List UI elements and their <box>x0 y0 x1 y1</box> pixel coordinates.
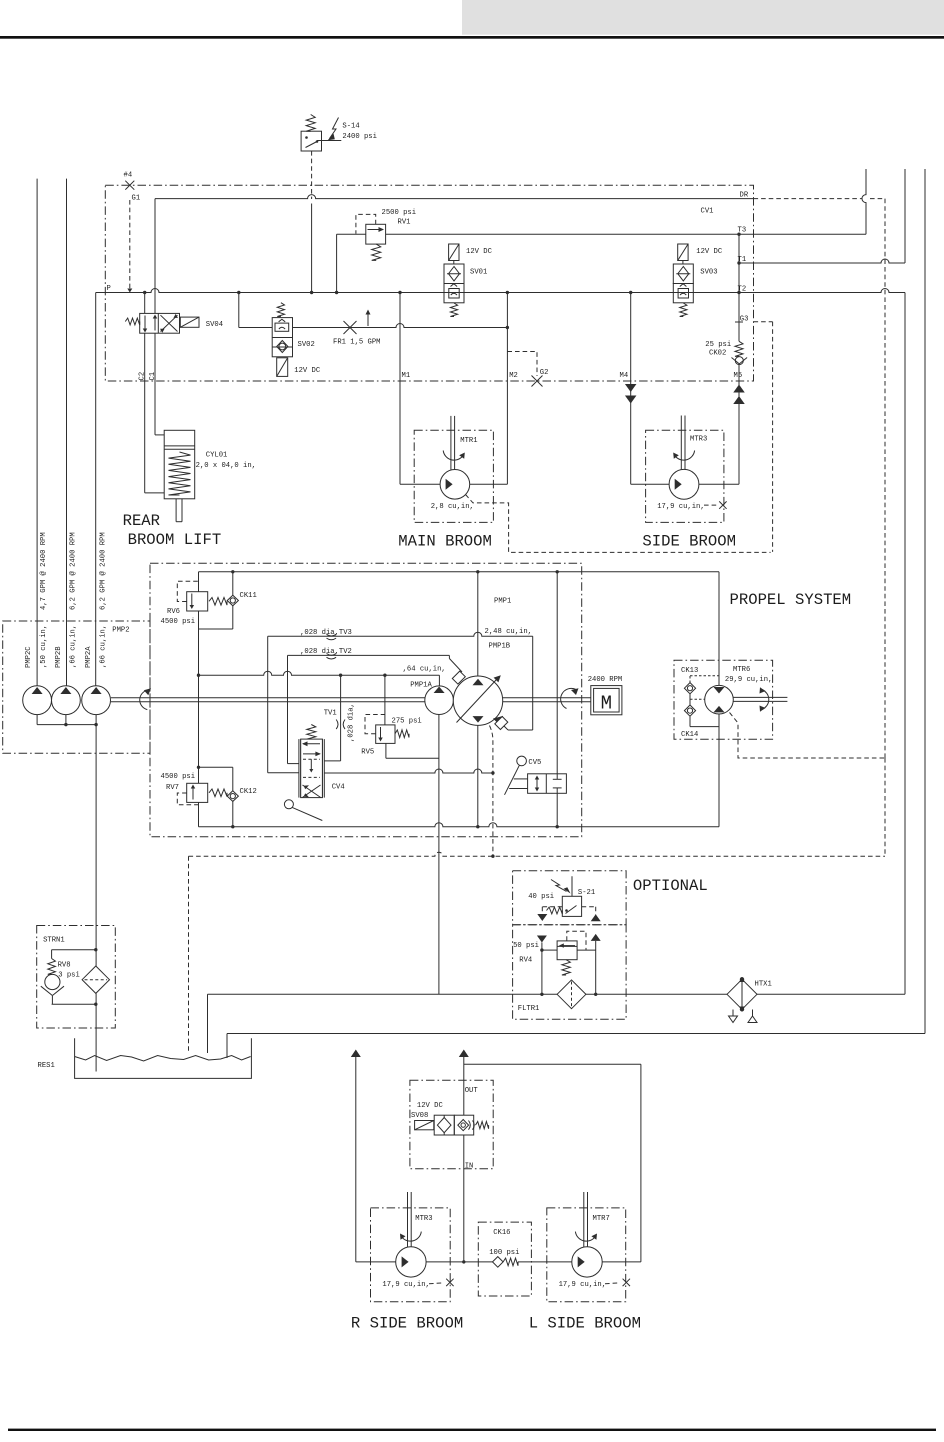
svg-text:CK02: CK02 <box>709 350 726 358</box>
svg-text:6,2 GPM @ 2400 RPM: 6,2 GPM @ 2400 RPM <box>70 532 78 610</box>
wire S-14 to P rail <box>311 151 313 199</box>
wire pump suction to tank <box>95 725 97 966</box>
wire propel return rail <box>199 823 720 827</box>
port G1 <box>125 181 134 190</box>
relief valve RV6 <box>198 572 200 592</box>
svg-text:CK12: CK12 <box>240 788 257 796</box>
svg-text:3 psi: 3 psi <box>58 971 80 979</box>
svg-text:CK11: CK11 <box>240 592 257 600</box>
wire SV02 feed <box>238 293 240 328</box>
svg-text:12V DC: 12V DC <box>417 1102 444 1110</box>
svg-text:TV1: TV1 <box>324 709 337 717</box>
svg-text:M1: M1 <box>402 372 411 380</box>
wire T2 return line <box>904 293 906 995</box>
svg-text:RES1: RES1 <box>38 1062 55 1070</box>
pump PMP1A <box>438 675 440 686</box>
relief valve RV4 <box>537 936 547 943</box>
wire PMP1A drain <box>438 715 440 995</box>
solenoid valve SV02 <box>277 303 284 317</box>
svg-text:S-21: S-21 <box>578 889 595 897</box>
wire M1 branch <box>399 293 401 485</box>
pilot wire G1 <box>129 200 131 289</box>
svg-text:12V DC: 12V DC <box>696 248 723 256</box>
svg-text:,50 cu,in,: ,50 cu,in, <box>40 625 48 668</box>
svg-text:C2: C2 <box>139 372 147 381</box>
solenoid valve SV08 <box>415 1121 434 1130</box>
svg-text:MAIN BROOM: MAIN BROOM <box>398 532 492 550</box>
motor MTR3 <box>680 416 682 470</box>
svg-text:25 psi: 25 psi <box>705 341 731 349</box>
wire MTR6 return <box>718 714 720 827</box>
svg-text:RV1: RV1 <box>398 219 411 227</box>
check valve CK14 <box>689 694 691 705</box>
svg-text:,66 cu,in,: ,66 cu,in, <box>100 625 108 668</box>
wire optional boundary dashed <box>189 852 886 856</box>
svg-text:,64 cu,in,: ,64 cu,in, <box>403 666 446 674</box>
svg-text:,66 cu,in,: ,66 cu,in, <box>70 625 78 668</box>
svg-text:G2: G2 <box>540 369 549 377</box>
svg-text:6,2 GPM @ 2400 RPM: 6,2 GPM @ 2400 RPM <box>100 532 108 610</box>
relief valve RV1 <box>366 224 386 244</box>
svg-text:,028 dia,TV3: ,028 dia,TV3 <box>300 629 352 637</box>
svg-text:OUT: OUT <box>465 1087 479 1095</box>
wire R broom supply <box>351 1050 361 1058</box>
svg-text:HTX1: HTX1 <box>755 981 772 989</box>
relief valve RV5 <box>384 675 386 725</box>
strainer STRN1 enclosure <box>37 926 116 1029</box>
wire C2 <box>144 293 146 314</box>
svg-text:2,48 cu,in,: 2,48 cu,in, <box>485 628 532 636</box>
svg-text:C1: C1 <box>149 372 157 381</box>
wire C1 <box>154 199 156 314</box>
svg-text:2,8 cu,in,: 2,8 cu,in, <box>431 503 474 511</box>
svg-text:R SIDE BROOM: R SIDE BROOM <box>351 1315 463 1333</box>
motor MTR3 R <box>407 1192 409 1247</box>
wire tank drop 994 <box>207 994 209 1053</box>
damper TV2 inlet <box>448 655 450 658</box>
wire return to tank <box>208 993 906 995</box>
wire pump suction lines <box>36 179 38 686</box>
svg-text:M: M <box>601 693 612 715</box>
port G2 <box>507 352 537 377</box>
heat exchanger HTX1 <box>727 979 757 1009</box>
wire M5 CK02 branch <box>738 234 740 341</box>
check valve CK12 <box>227 791 238 802</box>
svg-text:CK14: CK14 <box>681 731 698 739</box>
svg-text:2400 RPM: 2400 RPM <box>588 676 623 684</box>
svg-text:PMP1B: PMP1B <box>489 643 511 651</box>
svg-text:2500 psi: 2500 psi <box>382 209 417 217</box>
svg-text:RV5: RV5 <box>361 749 374 757</box>
svg-text:MTR6: MTR6 <box>733 666 750 674</box>
strainer STRN1 <box>82 966 109 993</box>
pump PMP1B <box>477 572 479 676</box>
svg-text:PMP1A: PMP1A <box>410 682 432 690</box>
svg-text:DR: DR <box>740 192 749 200</box>
propel system enclosure <box>150 563 582 837</box>
pump PMP2 group <box>3 621 150 753</box>
wire cooler return line <box>227 1033 925 1035</box>
drive shaft <box>111 697 591 699</box>
svg-text:17,9 cu,in,: 17,9 cu,in, <box>382 1281 429 1289</box>
svg-text:PMP2A: PMP2A <box>85 646 93 668</box>
svg-text:RV7: RV7 <box>166 784 179 792</box>
svg-text:SV04: SV04 <box>206 321 223 329</box>
wire T3 line <box>337 233 366 235</box>
solenoid valve SV03 <box>678 244 688 261</box>
valve CV5 <box>517 756 527 766</box>
svg-text:CV4: CV4 <box>332 784 345 792</box>
svg-text:RV6: RV6 <box>167 608 180 616</box>
svg-text:STRN1: STRN1 <box>43 937 65 945</box>
svg-text:40 psi: 40 psi <box>528 893 554 901</box>
svg-text:PMP2C: PMP2C <box>25 646 33 668</box>
wire T3 riser <box>862 169 866 234</box>
solenoid valve SV04 <box>125 318 139 325</box>
svg-text:SV08: SV08 <box>411 1112 428 1120</box>
cylinder CYL01 <box>164 430 195 499</box>
svg-text:29,9 cu,in,: 29,9 cu,in, <box>725 676 772 684</box>
motor MTR7 <box>583 1192 585 1247</box>
motor MTR3 enclosure <box>646 430 724 522</box>
svg-text:4500 psi: 4500 psi <box>161 773 196 781</box>
svg-text:IN: IN <box>465 1162 474 1170</box>
svg-text:12V DC: 12V DC <box>294 367 321 375</box>
svg-text:SV03: SV03 <box>700 269 717 277</box>
pilot wire MTR1 to side broom <box>466 495 771 553</box>
svg-text:MTR7: MTR7 <box>593 1215 610 1223</box>
orifice TV2 line <box>288 654 450 656</box>
svg-text:50 psi: 50 psi <box>513 942 539 950</box>
motor MTR6 enclosure <box>674 660 773 739</box>
svg-text:CV5: CV5 <box>528 759 541 767</box>
svg-text:BROOM LIFT: BROOM LIFT <box>128 531 222 549</box>
wire M2 branch <box>506 293 508 485</box>
motor MTR6 <box>705 685 734 714</box>
svg-text:MTR1: MTR1 <box>460 437 477 445</box>
wire pump drain <box>324 769 493 773</box>
svg-text:CK13: CK13 <box>681 667 698 675</box>
lever CV4 <box>284 800 293 809</box>
filter FLTR1 enclosure <box>513 925 627 1020</box>
svg-text:PROPEL SYSTEM: PROPEL SYSTEM <box>730 591 852 609</box>
pressure switch S-21 <box>571 876 573 896</box>
svg-text:17,9 cu,in,: 17,9 cu,in, <box>559 1281 606 1289</box>
wire SV08 riser <box>459 1050 469 1058</box>
relief valve RV7 <box>198 675 200 783</box>
svg-text:4500 psi: 4500 psi <box>161 618 196 626</box>
svg-text:SIDE BROOM: SIDE BROOM <box>642 532 736 550</box>
reservoir RES1 <box>75 1038 252 1078</box>
svg-text:4,7 GPM @ 2400 RPM: 4,7 GPM @ 2400 RPM <box>40 532 48 610</box>
solenoid valve SV01 <box>449 244 459 261</box>
check valve CK16 <box>493 1257 504 1268</box>
valve CV4 <box>307 725 316 740</box>
orifice TV3 line <box>268 632 533 636</box>
pilot wire G3 to side broom box <box>754 321 773 323</box>
manifold CV1 enclosure <box>105 185 753 381</box>
svg-text:MTR3: MTR3 <box>415 1215 432 1223</box>
svg-text:M2: M2 <box>509 372 518 380</box>
svg-text:100 psi: 100 psi <box>489 1249 519 1257</box>
svg-text:M4: M4 <box>620 372 629 380</box>
pressure switch S-14 <box>306 115 315 132</box>
relief valve RV8 <box>52 949 96 951</box>
wire DR rail <box>155 195 754 199</box>
svg-text:M5: M5 <box>734 372 743 380</box>
check valve CK02 <box>735 341 743 356</box>
check valve CK16 enclosure <box>478 1222 531 1296</box>
svg-text:CV1: CV1 <box>701 208 714 216</box>
solenoid valve SV08 enclosure <box>410 1080 493 1169</box>
svg-text:P: P <box>107 285 111 293</box>
svg-text:RV8: RV8 <box>58 962 71 970</box>
wire CV5 riser <box>556 572 558 774</box>
check valve CK13 <box>689 676 691 683</box>
damper TV3 inlet <box>493 716 503 726</box>
svg-text:PMP2B: PMP2B <box>55 646 63 668</box>
svg-text:CYL01: CYL01 <box>206 451 228 459</box>
svg-text:FR1 1,5 GPM: FR1 1,5 GPM <box>333 339 380 347</box>
motor MTR1 enclosure <box>414 430 493 522</box>
pressure switch S-21 enclosure <box>513 871 627 925</box>
svg-text:G1: G1 <box>132 195 141 203</box>
svg-text:PMP1: PMP1 <box>494 598 511 606</box>
svg-text:2400 psi: 2400 psi <box>342 133 377 141</box>
wire DR drain dashed riser <box>884 199 886 758</box>
svg-text:12V DC: 12V DC <box>466 248 493 256</box>
svg-text:SV02: SV02 <box>298 341 315 349</box>
wire TV3 to pump PMP1B <box>532 636 534 730</box>
wire broom line <box>426 1261 492 1263</box>
orifice TV1 line <box>340 675 342 761</box>
motor MTR7 enclosure <box>547 1208 626 1302</box>
svg-text:17,9 cu,in,: 17,9 cu,in, <box>657 503 704 511</box>
wire tank return line <box>924 169 926 1034</box>
svg-text:275 psi: 275 psi <box>392 718 422 726</box>
svg-text:PMP2: PMP2 <box>112 627 129 635</box>
wire MTR6 case drain dashed <box>730 713 886 759</box>
wire PMP1B outlet <box>477 725 479 826</box>
wire charge rail <box>199 571 720 573</box>
svg-text:SV01: SV01 <box>470 269 487 277</box>
wire T1 line <box>739 259 905 263</box>
svg-text:2,0 x 04,0 in,: 2,0 x 04,0 in, <box>196 462 256 470</box>
svg-text:#4: #4 <box>124 172 133 180</box>
svg-text:REAR: REAR <box>123 512 160 530</box>
svg-text:CK16: CK16 <box>493 1229 510 1237</box>
svg-text:MTR3: MTR3 <box>690 436 707 444</box>
wire MTR6 feed <box>718 572 720 685</box>
svg-text:OPTIONAL: OPTIONAL <box>633 877 708 895</box>
motor MTR3 R enclosure <box>371 1208 451 1302</box>
wire PMP1B case drain dashed <box>490 726 493 857</box>
svg-text:,028 dia,: ,028 dia, <box>348 703 356 742</box>
wire M4 branch <box>630 293 632 485</box>
svg-text:FLTR1: FLTR1 <box>518 1005 540 1013</box>
wire P T2 rail <box>96 289 905 293</box>
wire T1 riser <box>904 169 906 263</box>
wire pump inlet rail <box>199 671 440 675</box>
wire DR dashed to right <box>754 198 863 200</box>
svg-text:S-14: S-14 <box>342 122 359 130</box>
motor MTR1 <box>450 416 452 470</box>
check valve CK11 <box>232 572 234 595</box>
flow control FR1 <box>344 321 357 334</box>
svg-text:L SIDE BROOM: L SIDE BROOM <box>529 1315 641 1333</box>
svg-text:RV4: RV4 <box>519 957 532 965</box>
svg-text:,028 dia,TV2: ,028 dia,TV2 <box>300 648 352 656</box>
